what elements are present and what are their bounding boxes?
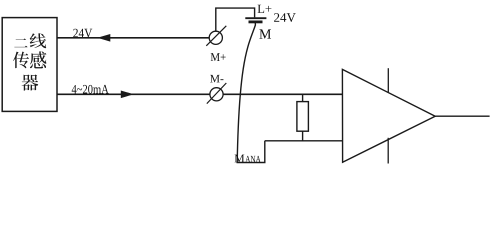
wire measuring circuit bottom rail bbox=[265, 140, 343, 142]
battery 24V plate L+ (long) bbox=[245, 17, 266, 19]
sensor label 二线传感器 bbox=[13, 33, 46, 90]
arrow left on 24V wire bbox=[97, 34, 110, 42]
label L+ bbox=[258, 5, 272, 13]
terminal M- (circle with slash) bbox=[207, 83, 227, 104]
op-amp measuring amplifier bbox=[342, 69, 435, 162]
wire 24V supply bbox=[57, 37, 209, 39]
two-wire sensor box bbox=[2, 18, 57, 112]
label M+ bbox=[211, 53, 226, 61]
pin tick bottom bbox=[387, 138, 389, 164]
wire M to MANA (curved) with MANA stub bbox=[237, 23, 265, 163]
label 24V left bbox=[73, 29, 92, 38]
label 4~20mA bbox=[72, 85, 109, 94]
wire 4~20mA signal to amplifier bbox=[57, 93, 343, 95]
battery plate M (short thick) bbox=[249, 20, 263, 23]
arrow right on 4~20mA wire bbox=[121, 91, 134, 99]
terminal M+ (circle with slash) bbox=[206, 26, 226, 46]
wire amplifier output bbox=[435, 115, 490, 117]
wire M+ terminal to L+ supply bbox=[216, 8, 255, 31]
resistor bottom lead bbox=[302, 131, 304, 141]
label M- bbox=[210, 75, 223, 83]
label M battery negative bbox=[259, 29, 271, 38]
label MANA bbox=[235, 155, 245, 163]
resistor top lead bbox=[302, 94, 304, 102]
label 24V right bbox=[274, 13, 296, 22]
resistor input impedance bbox=[297, 102, 309, 132]
pin tick top bbox=[387, 68, 389, 93]
